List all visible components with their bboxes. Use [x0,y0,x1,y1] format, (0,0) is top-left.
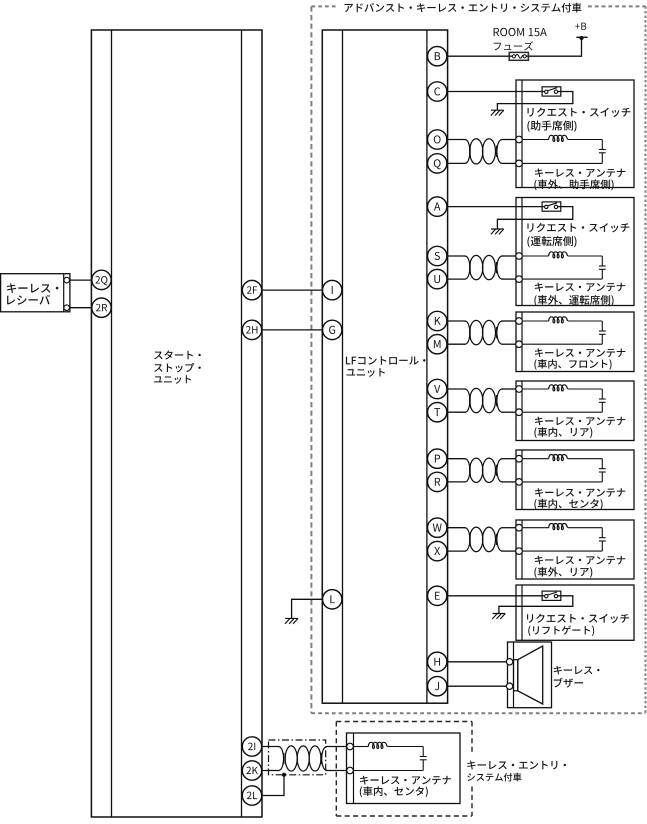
terminal T [428,403,447,422]
junction dot on shield [282,773,286,777]
label: keyless entry system equipped vehicles [467,761,566,782]
wire A to request switch [448,206,545,208]
capacitor [599,256,606,279]
wire H to buzzer [448,661,507,663]
twisted pair 2I/2K [262,746,347,771]
terminal R [428,472,447,491]
terminal W [428,518,447,537]
wire receiver to 2R [70,307,92,309]
keyless antenna circuit (outside, passenger side) [516,136,603,167]
wire 2F to I [262,289,322,291]
keyless antenna circuit [516,386,603,416]
inductor (antenna coil) [549,385,568,391]
keyless antenna circuit [516,455,603,485]
keyless antenna box (rear interior) [516,381,634,441]
inductor (antenna coil) [549,135,568,141]
inductor (antenna coil) [368,742,387,748]
inductor (antenna coil) [549,455,568,461]
request switch (driver side) [542,202,561,211]
terminal P [428,449,447,468]
request switch (passenger side) [542,87,561,96]
wire 2L to shield [262,775,284,796]
wire C to request switch [448,91,545,93]
shield (dash-dot) around twisted pair [269,740,326,775]
terminal S [428,246,447,265]
label: keyless antenna [534,348,625,369]
keyless antenna box (front interior) [516,312,634,372]
label: keyless antenna (outside, passenger side) [534,168,625,190]
terminal K [428,311,447,330]
terminal 2R [92,298,111,317]
terminal 2Q [92,270,111,289]
+B supply node [576,36,587,40]
wire switch to ground [497,207,572,229]
wire switch to ground [499,596,573,614]
keyless antenna circuit [516,318,603,348]
terminal U [428,269,447,288]
label: keyless antenna [534,488,625,510]
label: keyless buzzer [554,666,600,688]
wire L to ground [292,599,324,618]
wire J to buzzer [448,685,507,687]
twisted pair W/X [447,527,516,552]
ground (LF unit) [285,618,298,623]
keyless antenna circuit (outside, driver side) [516,253,603,283]
terminal V [428,379,447,398]
keyless antenna box (rear exterior) [516,520,634,579]
request switch (liftgate) [542,591,561,600]
twisted pair S/U [447,255,516,279]
terminal 2I [242,737,261,756]
terminal 2F [242,280,261,299]
label: advanced keyless entry system [344,3,581,13]
twisted pair P/R [447,458,516,482]
terminal 2H [242,320,261,339]
ground (liftgate request switch) [492,614,505,619]
fuse ROOM 15A [509,52,528,60]
twisted pair K/M [447,320,516,344]
keyless antenna circuit [516,524,603,554]
capacitor [599,459,606,482]
terminal H [428,652,447,671]
keyless buzzer box [508,642,552,708]
capacitor [420,747,427,771]
capacitor [599,321,606,344]
buzzer speaker symbol [514,646,543,704]
label: request switch (liftgate) [527,614,629,636]
label: request switch (passenger side) [527,108,630,132]
terminal 2L [242,786,261,805]
inductor (antenna coil) [549,252,568,258]
LF control unit box (connector) [322,30,447,703]
terminal I [323,280,342,299]
start-stop unit box (connector) [91,30,262,817]
request switch / keyless antenna box (driver side) [516,198,634,306]
label: keyless antenna (outside, driver side) [534,283,625,306]
buzzer terminal (H side) [506,659,512,665]
buzzer terminal (J side) [506,683,512,689]
terminal 2K [242,761,261,780]
twisted pair V/T [447,388,516,412]
label: keyless antenna (center interior) [360,776,451,797]
terminal Q [428,154,447,173]
keyless antenna circuit (bottom) [347,743,424,774]
terminal A [428,197,447,216]
request switch box (liftgate) [516,585,634,640]
inductor (antenna coil) [549,524,568,530]
terminal G [323,320,342,339]
ground (passenger request switch) [491,110,504,115]
label: ROOM 15A fuse [494,28,547,51]
inductor (antenna coil) [549,317,568,323]
twisted pair O/Q [447,139,516,164]
ground (driver request switch) [491,229,504,234]
dashed enclosure: advanced keyless entry system equipped vehicles [311,6,645,713]
capacitor [599,389,606,412]
label: keyless antenna [534,417,625,438]
label: keyless receiver [7,283,58,304]
label: +B [575,23,586,30]
terminal C [428,82,447,101]
wire switch to ground [497,92,572,111]
dashed enclosure: keyless entry system equipped vehicles [336,722,472,817]
label: keyless antenna [534,556,625,578]
wire 2H to G [262,329,322,331]
keyless antenna box (center interior, keyless entry system) [347,733,461,804]
label: start-stop unit [154,350,201,383]
label: LF control unit [346,356,426,377]
wire receiver to 2Q [70,279,92,281]
terminal X [428,541,447,560]
terminal E [428,586,447,605]
terminal J [428,677,447,696]
terminal M [428,335,447,354]
terminal L [323,590,342,609]
capacitor [599,140,606,164]
terminal O [428,130,447,149]
label: request switch (driver side) [527,223,629,247]
request switch / keyless antenna box (passenger side) [516,80,634,188]
keyless receiver box [1,274,70,312]
capacitor [599,528,606,551]
terminal B [428,47,447,66]
wire E to request switch [448,595,545,597]
wire B to fuse to +B [448,38,582,56]
keyless antenna box (center interior) [516,450,634,510]
